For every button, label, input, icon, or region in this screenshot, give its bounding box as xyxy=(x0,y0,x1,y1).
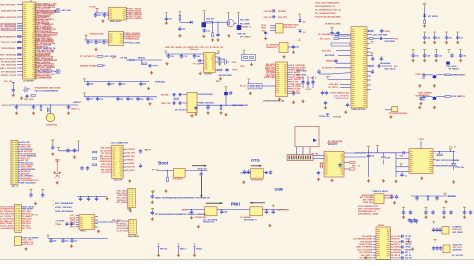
capacitor C47 xyxy=(108,81,109,82)
sheet border line xyxy=(0,259,474,261)
net label U9-R8 xyxy=(288,81,291,83)
svg-text:ANT9CBEGE377: ANT9CBEGE377 xyxy=(0,35,17,38)
capacitor C84 C85 xyxy=(65,222,68,227)
net label X2-2 xyxy=(18,144,21,146)
svg-text:SPK_VDD6_3: SPK_VDD6_3 xyxy=(361,255,373,257)
svg-text:PMU: PMU xyxy=(231,201,240,206)
net label X2-9 xyxy=(18,159,21,161)
connector J7 xyxy=(129,220,137,235)
net label U11-R4 xyxy=(391,243,394,245)
svg-text:DVDD_ANT1E6E92: DVDD_ANT1E6E92 xyxy=(55,210,74,213)
capacitor C13 xyxy=(193,54,196,59)
capacitor C79 xyxy=(30,192,32,193)
flow arrow down xyxy=(200,176,202,198)
capacitor C81 xyxy=(80,196,81,197)
capacitor C43 xyxy=(16,104,17,105)
IC U4 ethernet phy xyxy=(204,52,215,72)
svg-text:SPK_NC: SPK_NC xyxy=(160,248,168,250)
diode D9 xyxy=(313,139,317,142)
svg-text:VDD_PWM2: VDD_PWM2 xyxy=(452,232,462,234)
svg-text:NC_USB14EB: NC_USB14EB xyxy=(318,33,331,36)
microphone MK2 xyxy=(434,239,437,241)
net label U11-L3 xyxy=(373,241,376,243)
capacitor C2 xyxy=(103,13,106,18)
capacitor C20 xyxy=(331,27,334,29)
svg-text:SDIO_SLOT: SDIO_SLOT xyxy=(110,21,122,23)
svg-text:PWR_EN: PWR_EN xyxy=(237,33,246,35)
ground G38 xyxy=(190,114,193,117)
svg-text:SPK_VBUS633D: SPK_VBUS633D xyxy=(0,54,17,56)
net label MCU-R39 xyxy=(35,68,37,71)
net label X2-15 xyxy=(18,173,21,175)
battery BT1 red xyxy=(54,163,61,177)
power flag U5R2 xyxy=(371,53,374,55)
transistor Q6 xyxy=(215,61,224,63)
ground G11 xyxy=(199,72,202,75)
capacitor C69 xyxy=(221,209,222,210)
ground G6 xyxy=(202,35,205,38)
svg-text:INT3G1: INT3G1 xyxy=(393,239,399,241)
ground G51 xyxy=(56,181,59,184)
net label U2-R5 xyxy=(127,15,129,17)
wire U17 out xyxy=(433,151,455,153)
pin J5-L5 xyxy=(76,224,79,226)
svg-text:INT874: INT874 xyxy=(196,247,202,250)
capacitor C97 xyxy=(368,152,369,153)
ground G49 xyxy=(51,152,54,155)
pin J5-L3 xyxy=(76,219,79,221)
pin J5-R4 xyxy=(95,226,98,228)
crystal Y1 xyxy=(385,109,392,111)
net label X2-11 xyxy=(18,164,21,166)
svg-text:C72: C72 xyxy=(460,37,463,39)
net label U9-R11 xyxy=(288,88,291,90)
capacitor C60 xyxy=(229,91,233,94)
capacitor C50 xyxy=(87,96,88,97)
wire pmu bus xyxy=(186,209,286,211)
IC U8 audio amp xyxy=(187,92,197,112)
svg-text:CLK32K151_: CLK32K151_ xyxy=(172,178,185,180)
power flag MID3 xyxy=(243,50,246,52)
net label X1-R4 xyxy=(123,159,126,161)
capacitor group M4 xyxy=(463,207,466,209)
svg-text:KEY_TP5H: KEY_TP5H xyxy=(22,228,32,230)
net label U11-L9 xyxy=(373,257,376,259)
capacitor C63 xyxy=(338,163,341,168)
net label MCU-L5 xyxy=(17,24,23,26)
transistor Q5 xyxy=(237,25,242,30)
svg-text:KEY36: KEY36 xyxy=(405,249,411,251)
net label MCU-R8 xyxy=(35,15,37,18)
wire audio rail xyxy=(10,104,79,106)
capacitor C93 xyxy=(416,195,417,196)
microphone MK1 xyxy=(432,222,435,224)
net label MCU-L13 xyxy=(17,58,23,60)
capacitor C49 xyxy=(140,81,141,82)
capacitor C102 xyxy=(317,171,320,176)
net label MCU-R10 xyxy=(35,18,37,21)
svg-text:EN_RXD1: EN_RXD1 xyxy=(448,196,456,198)
svg-text:LCD_SP: LCD_SP xyxy=(393,258,401,260)
svg-text:VDD_HP21_: VDD_HP21_ xyxy=(24,99,36,101)
capacitor C71 xyxy=(272,205,275,207)
net label MCU-L6 xyxy=(17,26,23,28)
capacitor C101 out xyxy=(453,152,455,161)
net label U9-R1 xyxy=(288,64,291,66)
svg-text:RXD_AVDD4H: RXD_AVDD4H xyxy=(360,240,373,243)
net label MCU-R26 xyxy=(35,46,37,49)
net label X2-6 xyxy=(18,153,21,155)
net label MCU-R33 xyxy=(35,58,37,61)
net label U3-R2 xyxy=(124,34,126,36)
wire u5r stub4 xyxy=(367,79,371,81)
capacitor C56 xyxy=(172,93,176,96)
net label MCU-L16 xyxy=(17,67,23,69)
svg-text:USB3E5901A1: USB3E5901A1 xyxy=(126,37,141,40)
svg-text:XTAL34: XTAL34 xyxy=(393,251,400,254)
capacitor C12 xyxy=(180,54,183,59)
net label U9-R6 xyxy=(288,76,291,78)
pin J5-L6 xyxy=(76,226,79,228)
net label MCU-R18 xyxy=(35,32,37,35)
net label MCU-R15 xyxy=(35,27,37,30)
ground G66 xyxy=(411,247,414,250)
capacitor C25 xyxy=(324,101,327,106)
wire LDO2 rail xyxy=(85,39,109,41)
ground G21 xyxy=(292,101,295,104)
net label MCU-L9 xyxy=(17,36,23,38)
net label X2-17 xyxy=(18,177,21,179)
svg-text:XTAL_DAC9734865425FE: XTAL_DAC9734865425FE xyxy=(315,1,340,4)
ground G35 xyxy=(67,111,70,114)
net label MCU-R11 xyxy=(35,20,37,23)
resistor R31 xyxy=(427,195,428,196)
svg-text:DAC_DP131CA3: DAC_DP131CA3 xyxy=(0,57,17,60)
resistor R26 red xyxy=(344,168,349,170)
ground G27 xyxy=(418,84,421,87)
svg-text:C16: C16 xyxy=(150,99,153,101)
svg-text:XTAL_: XTAL_ xyxy=(240,65,247,68)
svg-text:INT_HP5DH: INT_HP5DH xyxy=(101,153,112,155)
svg-text:BOOT_PWM: BOOT_PWM xyxy=(264,77,275,79)
svg-text:LCD0HED16GBF: LCD0HED16GBF xyxy=(37,77,53,79)
net label X2-18 xyxy=(18,180,21,182)
module outline M1 xyxy=(295,126,319,146)
svg-text:EN_VSYS2: EN_VSYS2 xyxy=(297,75,307,77)
net label MCU-L2 xyxy=(17,10,23,12)
svg-text:C1u: C1u xyxy=(422,78,425,80)
resistor R3 xyxy=(179,16,181,20)
pin J5-R1 xyxy=(95,216,98,218)
power flag RR xyxy=(444,193,447,195)
net label X2-5 xyxy=(18,150,21,152)
capacitor C46 xyxy=(87,81,88,82)
net label U17 fb1 xyxy=(433,159,436,161)
ground G5 xyxy=(178,34,181,37)
capacitor C19 xyxy=(292,91,295,96)
net label MCU-R31 xyxy=(35,54,37,57)
svg-text:WAKEA0: WAKEA0 xyxy=(393,248,401,251)
ground G9 xyxy=(227,34,230,37)
net label U9-R3 xyxy=(288,69,291,71)
svg-text:LCD81: LCD81 xyxy=(319,116,325,118)
resistor pack RN1 xyxy=(331,43,350,46)
svg-text:PA_MOSI79: PA_MOSI79 xyxy=(322,67,332,70)
svg-text:EN_KEYHAC42GB: EN_KEYHAC42GB xyxy=(0,227,15,230)
net label U9-R12 xyxy=(288,90,291,92)
capacitor C45 xyxy=(68,104,69,105)
svg-text:AVDD57BC: AVDD57BC xyxy=(453,249,463,252)
net label MCU-L15 xyxy=(17,64,23,66)
net label MCU-R40 xyxy=(35,70,37,73)
net label U4 left xyxy=(200,63,204,65)
capacitor C31 with power flag xyxy=(423,32,426,34)
svg-text:VDD_GP: VDD_GP xyxy=(386,198,394,200)
power flag C79 xyxy=(30,189,33,191)
svg-text:C101 22u: C101 22u xyxy=(456,167,465,169)
net label MCU-R19 xyxy=(35,34,37,37)
net label MCU-R9 xyxy=(35,16,37,19)
net label u5row6 xyxy=(340,86,351,88)
capacitor C42 resistor R21 xyxy=(25,95,29,98)
ground G46 xyxy=(190,216,193,219)
ground G71 xyxy=(394,180,397,183)
resistor column RC3 xyxy=(312,76,314,88)
svg-text:D2: D2 xyxy=(303,22,305,24)
svg-text:C50: C50 xyxy=(168,19,171,21)
svg-text:RST_X: RST_X xyxy=(70,226,76,228)
resistor R9 R10 pair xyxy=(242,55,256,61)
ground G56 xyxy=(97,230,100,233)
svg-text:OTG: OTG xyxy=(251,158,260,163)
resistor R17 row xyxy=(367,65,369,67)
svg-text:LDO2694: LDO2694 xyxy=(126,162,134,165)
IC U2 SDIO xyxy=(109,7,127,20)
ground G41 xyxy=(224,113,227,116)
svg-text:BAT_D: BAT_D xyxy=(145,149,152,152)
wire U3 bottom xyxy=(124,42,130,44)
svg-text:EN_HP: EN_HP xyxy=(405,244,412,246)
svg-text:C91: C91 xyxy=(90,42,93,44)
net label MCU-R25 xyxy=(35,44,37,47)
net label U11-R9 xyxy=(391,257,394,259)
net label U11-R2 xyxy=(391,238,394,240)
svg-text:U4 IP101: U4 IP101 xyxy=(204,72,212,75)
svg-text:MISO_RSTCB1C: MISO_RSTCB1C xyxy=(199,103,214,105)
wire U5 row2 xyxy=(336,50,351,52)
ground G65 xyxy=(444,200,447,203)
net label U9-R13 xyxy=(288,92,291,94)
wire feed xyxy=(142,59,162,61)
svg-text:DAC_DACD: DAC_DACD xyxy=(385,68,396,71)
power flag BUS1 xyxy=(83,79,86,81)
capacitor C80 xyxy=(42,192,44,193)
capacitor C41 xyxy=(12,88,15,93)
ground G20 xyxy=(278,98,281,101)
wire cap bus2 xyxy=(83,95,85,97)
svg-text:PWM261_: PWM261_ xyxy=(126,160,135,162)
capacitor C21 xyxy=(336,31,339,36)
net label MCU-R21 xyxy=(35,37,37,40)
svg-text:PWM19C5HF: PWM19C5HF xyxy=(100,159,112,161)
svg-text:WAKE_VSYSF945AE1B0F46CHGFDFDEF: WAKE_VSYSF945AE1B0F46CHGFDFDEF52_079187H… xyxy=(155,197,210,200)
capacitor C4 xyxy=(86,40,89,45)
capacitor C32 with power flag xyxy=(433,32,436,34)
power flag ETH2 xyxy=(215,53,218,55)
svg-text:MOSI0B7_A: MOSI0B7_A xyxy=(240,26,251,29)
svg-text:DP22119FF9H0: DP22119FF9H0 xyxy=(199,94,213,96)
net label X2-14 xyxy=(18,171,21,173)
power flag PWR3 xyxy=(203,11,206,13)
svg-text:PA6_H6F6A: PA6_H6F6A xyxy=(101,168,112,171)
svg-text:CAM: CAM xyxy=(127,207,132,210)
power flag PWR2 xyxy=(178,12,181,14)
svg-text:TXD44FH58GD6: TXD44FH58GD6 xyxy=(0,29,17,32)
net label MCU-R27 xyxy=(35,47,37,50)
svg-text:PA_SC: PA_SC xyxy=(240,85,247,88)
IC U14 boost xyxy=(205,207,217,216)
ground G40 xyxy=(206,111,209,114)
wire right row1 xyxy=(411,195,455,197)
capacitor C83 xyxy=(96,196,97,197)
svg-text:LCDAE872: LCDAE872 xyxy=(452,225,461,228)
svg-text:TXD196161A9G: TXD196161A9G xyxy=(334,97,349,100)
power flag BOOT xyxy=(152,191,155,193)
wire DCDC rail xyxy=(355,152,396,154)
net label X2-4 xyxy=(18,148,21,150)
svg-text:UART_VSYS805FB: UART_VSYS805FB xyxy=(356,246,373,249)
svg-text:EN9E1HDDH: EN9E1HDDH xyxy=(100,161,112,163)
capacitor C9 xyxy=(203,28,206,33)
capacitor C6 xyxy=(102,40,105,45)
svg-text:PA18A32A9: PA18A32A9 xyxy=(380,62,390,65)
svg-text:EXT_IO: EXT_IO xyxy=(12,186,19,188)
ground G73 xyxy=(452,180,455,183)
transistor Q4 mosfet xyxy=(227,20,234,27)
svg-text:DVDD74: DVDD74 xyxy=(393,246,400,249)
power flag MID1 xyxy=(298,14,301,16)
svg-text:TXD_HP_70217: TXD_HP_70217 xyxy=(1,42,17,44)
capacitor C26 xyxy=(346,103,349,108)
net label X1-R1 xyxy=(123,149,126,151)
IC U1 main MCU xyxy=(23,2,37,79)
svg-text:C31: C31 xyxy=(130,99,133,101)
IC U17 buck converter xyxy=(409,149,433,174)
ground G47 xyxy=(197,225,200,228)
net label MCU-R29 xyxy=(35,51,37,54)
svg-text:BAT_S: BAT_S xyxy=(311,76,318,79)
svg-text:XTAL: XTAL xyxy=(232,61,238,64)
svg-text:PA_CSH85: PA_CSH85 xyxy=(240,23,250,26)
svg-text:ESP32-PICO-D4: ESP32-PICO-D4 xyxy=(352,108,365,111)
wire ETH rail xyxy=(165,52,167,55)
svg-text:TP_VSYS5C7F_4: TP_VSYS5C7F_4 xyxy=(80,55,98,58)
capacitor C51 xyxy=(97,96,98,97)
net label U11-L5 xyxy=(373,246,376,248)
connector J5 USB-C xyxy=(79,215,95,230)
resistor column RC1 xyxy=(302,76,304,88)
svg-text:Ethernet: Ethernet xyxy=(190,48,199,51)
svg-text:GPIO2: GPIO2 xyxy=(405,247,411,249)
resistor column RC2 xyxy=(307,76,309,88)
net label U11-R8 xyxy=(391,254,394,256)
wire u5r stub6 xyxy=(367,89,371,91)
ground G18 xyxy=(292,50,295,53)
net label U10-R1 xyxy=(384,194,386,196)
ground G25 xyxy=(419,102,422,105)
wire U12 right2 xyxy=(344,156,366,158)
svg-text:BOOT_SPI4B73_A41: BOOT_SPI4B73_A41 xyxy=(331,92,350,95)
wire cap bus1 xyxy=(83,80,85,83)
svg-text:RST9: RST9 xyxy=(232,70,237,72)
svg-text:DP22: DP22 xyxy=(460,96,465,98)
capacitor C59 xyxy=(207,105,208,106)
svg-text:XTAL33HG: XTAL33HG xyxy=(329,83,339,86)
resistor R27 xyxy=(167,177,169,181)
svg-text:C42: C42 xyxy=(295,46,298,49)
power flag AMP xyxy=(225,87,228,89)
power flag DCDC in1 xyxy=(367,147,370,149)
diode D8 xyxy=(224,92,228,95)
ground G74 xyxy=(301,100,304,103)
capacitor C15 xyxy=(215,56,219,58)
connector X2 GPIO header xyxy=(11,140,18,184)
svg-text:C30: C30 xyxy=(170,56,173,58)
ground G68 xyxy=(407,240,410,243)
capacitor C18 xyxy=(288,46,294,48)
svg-text:SDA28B_9D8E96: SDA28B_9D8E96 xyxy=(80,64,98,67)
capacitor C40 xyxy=(422,95,425,100)
capacitor C64 xyxy=(185,170,207,172)
svg-text:SDA5: SDA5 xyxy=(460,74,465,77)
ground G64 xyxy=(393,201,396,204)
net label X2-7 xyxy=(18,155,21,157)
power flag U5R1 xyxy=(367,43,370,45)
svg-text:ADC_BOOT25E: ADC_BOOT25E xyxy=(373,34,388,37)
svg-text:LCD_CONNECTOR: LCD_CONNECTOR xyxy=(111,142,129,144)
power flag TPa xyxy=(151,192,154,194)
svg-text:XTAL_EN21: XTAL_EN21 xyxy=(101,163,111,166)
wire u5r stub3 xyxy=(367,75,371,77)
ground G52 xyxy=(128,179,131,182)
net label MCU-L10 xyxy=(17,41,23,43)
resistor R30 xyxy=(93,164,97,166)
capacitor C72 xyxy=(52,143,54,145)
svg-text:PCB ANT: PCB ANT xyxy=(333,115,342,118)
svg-text:UART_DVDD182C: UART_DVDD182C xyxy=(232,104,249,107)
svg-text:VBUS: VBUS xyxy=(181,210,187,212)
power flag X2 xyxy=(51,141,54,143)
svg-text:INT_MOSI1: INT_MOSI1 xyxy=(428,16,438,18)
capacitor C94 xyxy=(436,195,437,196)
net label MCU-R1 xyxy=(35,3,37,6)
resistor R15 row xyxy=(367,30,369,32)
ground G15 xyxy=(264,37,267,40)
ground G57 xyxy=(70,244,73,247)
net label U6-L2 xyxy=(270,27,276,29)
net label X2-1 xyxy=(18,141,21,143)
resistor R5 xyxy=(212,22,214,33)
power flag PWR4 xyxy=(227,13,230,15)
wire u5r stub1 xyxy=(367,48,371,50)
diode D1 xyxy=(190,21,193,24)
svg-text:PWM_VDD: PWM_VDD xyxy=(161,103,171,105)
ground G37 xyxy=(148,102,151,105)
net label MCU-L1 xyxy=(17,4,23,6)
svg-text:AVDD_DP7: AVDD_DP7 xyxy=(453,243,462,246)
resistor R8 capacitor C16 parallel xyxy=(141,60,143,65)
svg-text:U5 ESP32-C3FH4: U5 ESP32-C3FH4 xyxy=(325,22,341,25)
